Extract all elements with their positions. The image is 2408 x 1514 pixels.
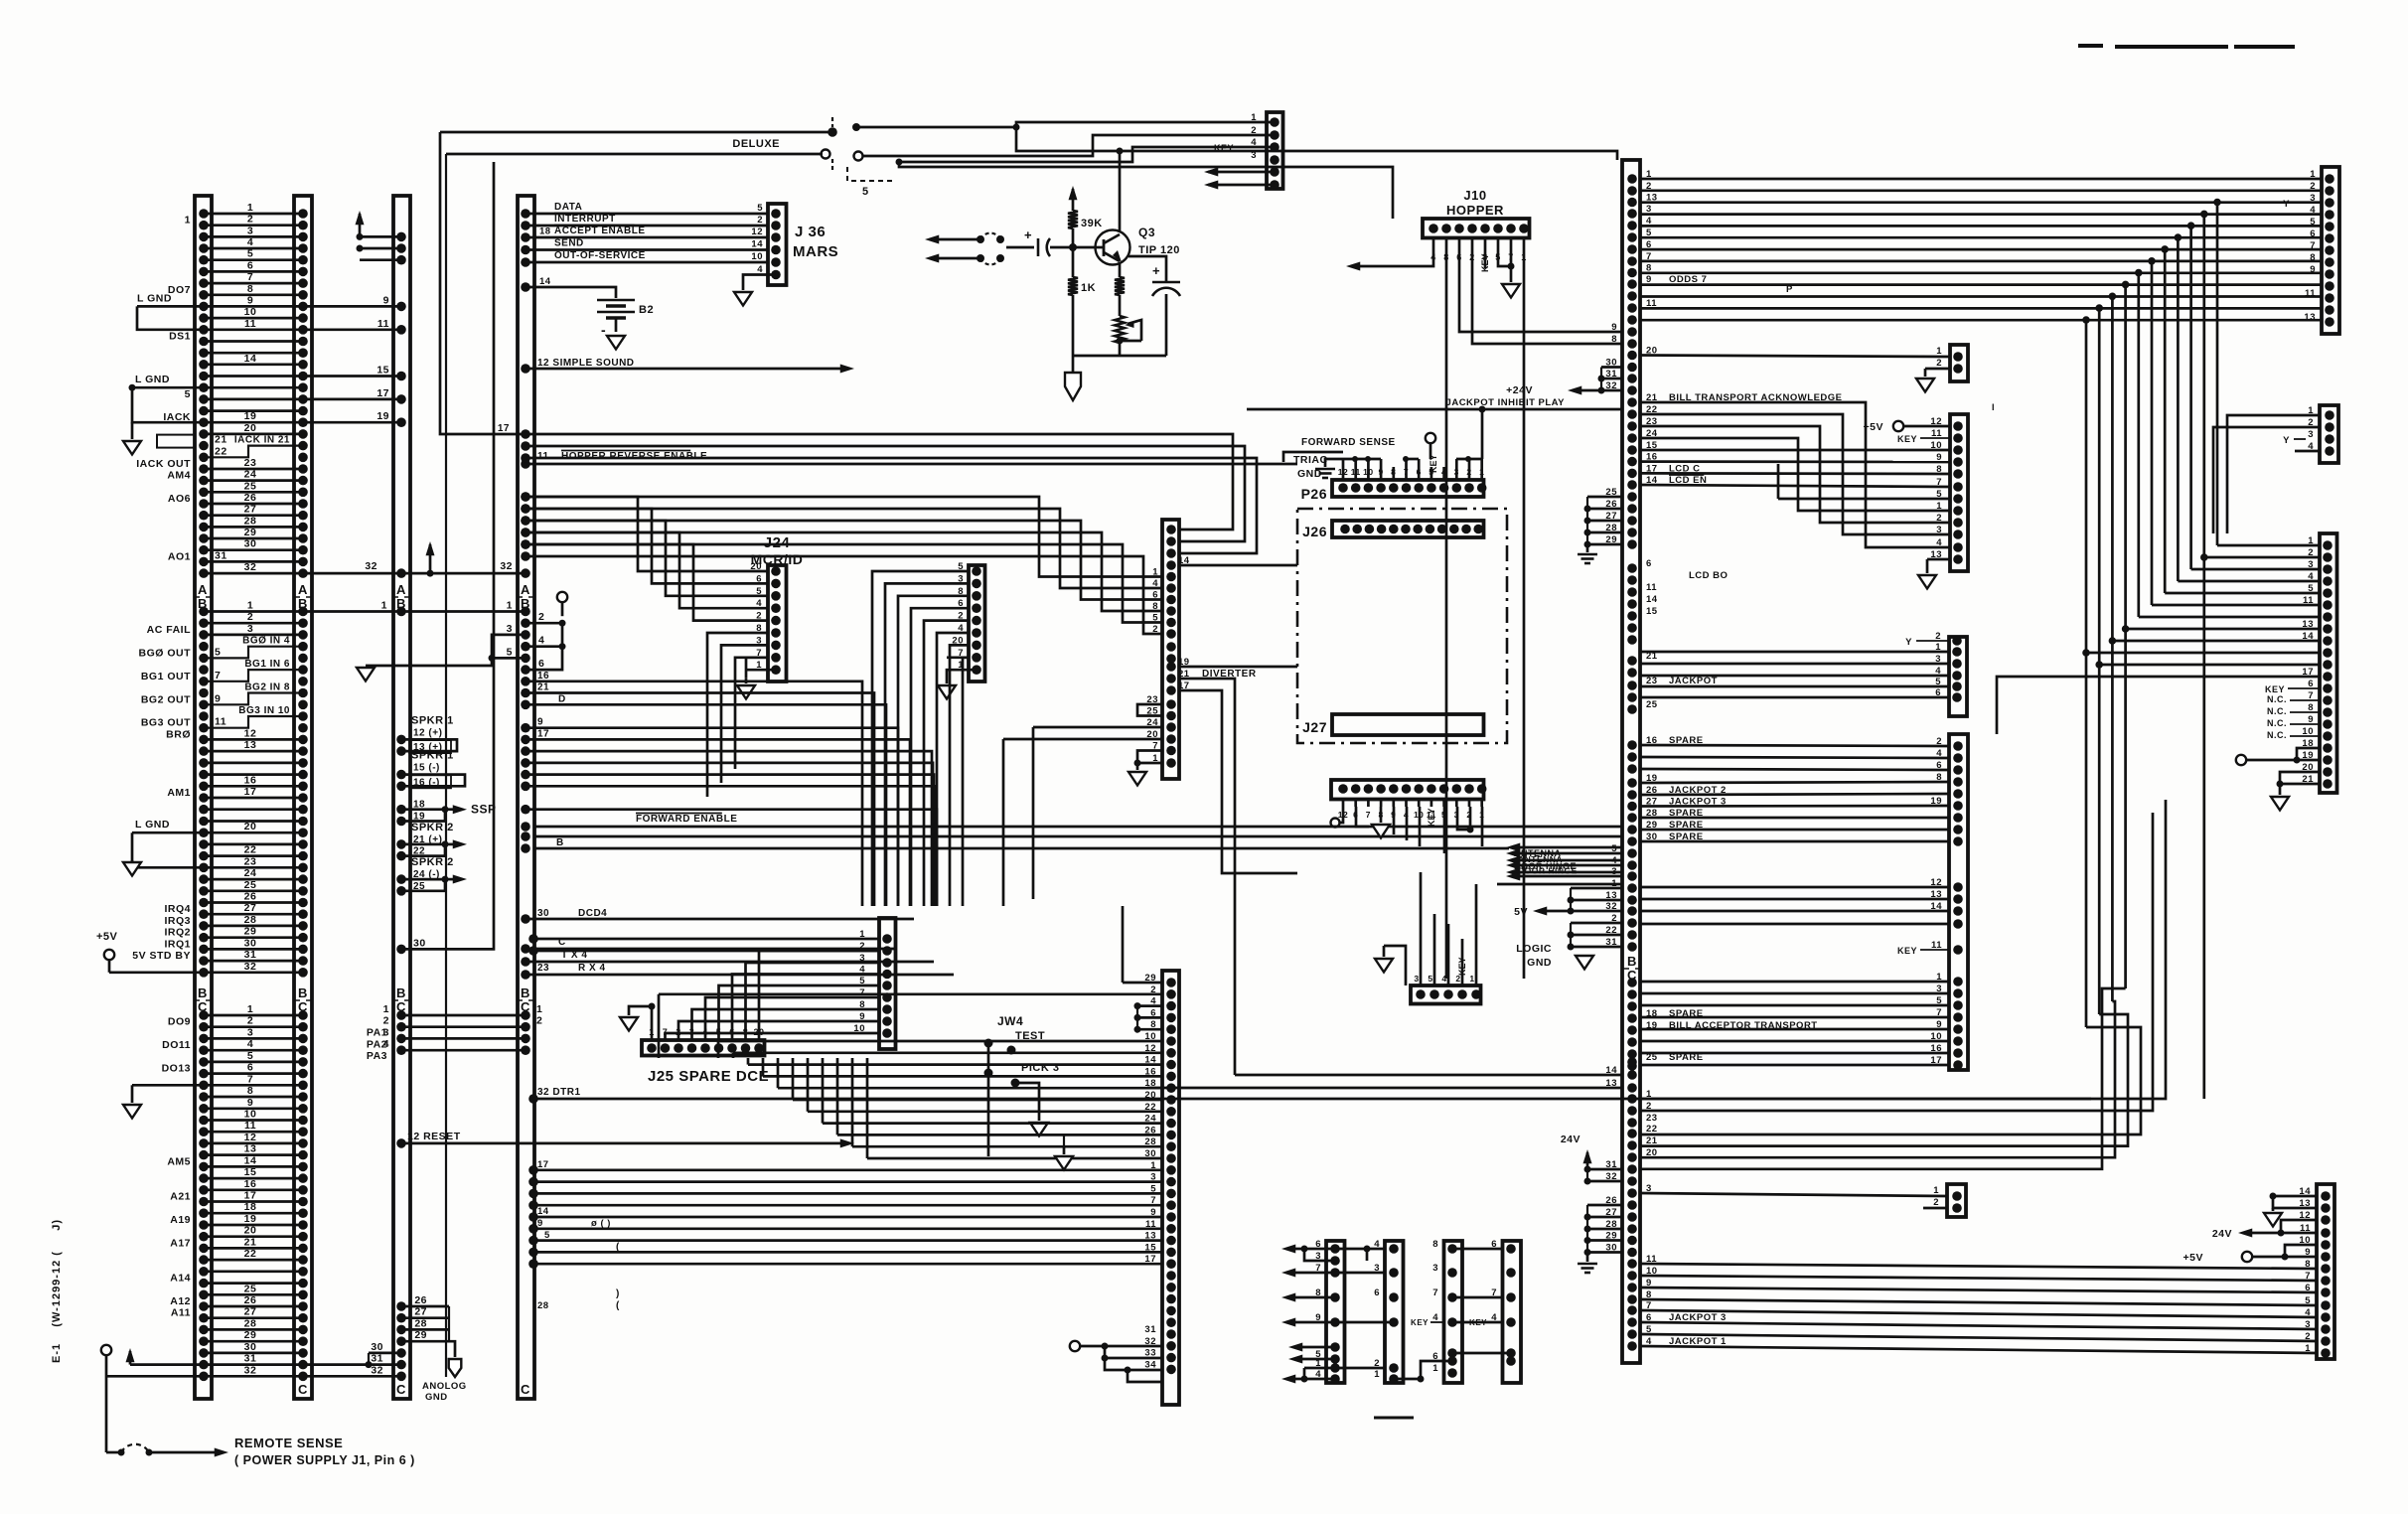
svg-text:4: 4 <box>247 1038 253 1050</box>
vertical bus lines right side <box>2085 320 2088 1027</box>
svg-text:C: C <box>396 1382 406 1397</box>
svg-text:14: 14 <box>2302 631 2314 642</box>
svg-text:2: 2 <box>247 611 253 623</box>
svg-text:FORWARD SENSE: FORWARD SENSE <box>1301 437 1396 448</box>
svg-text:DOOR HINGE: DOOR HINGE <box>1518 866 1578 876</box>
P11 pins 1 2 horizontals from J3 <box>533 938 879 941</box>
svg-text:DO11: DO11 <box>162 1039 191 1051</box>
svg-text:26: 26 <box>244 891 257 903</box>
svg-text:6: 6 <box>1646 558 1652 569</box>
J3 row 17 wire to top vertical <box>521 429 530 439</box>
svg-text:BG2 IN 8: BG2 IN 8 <box>244 682 290 693</box>
svg-text:FORWARD ENABLE: FORWARD ENABLE <box>636 814 737 825</box>
svg-text:8: 8 <box>1611 334 1617 345</box>
svg-text:2: 2 <box>536 1015 542 1027</box>
P7 pins 20 21 bracket with ground <box>2280 772 2320 784</box>
P10b row 29 wire <box>1123 982 1162 984</box>
svg-text:ø ( ): ø ( ) <box>591 1218 611 1229</box>
P0 arrows out left <box>1208 171 1275 174</box>
SPKR2 24/25 jumper on strip3 <box>396 874 406 884</box>
arrows out left from jumpers <box>930 238 980 241</box>
svg-text:14: 14 <box>244 353 257 365</box>
svg-text:MARS: MARS <box>793 243 838 260</box>
svg-text:OUT-OF-SERVICE: OUT-OF-SERVICE <box>554 250 646 261</box>
P27 connector box below module <box>1331 780 1484 800</box>
svg-text:AM1: AM1 <box>167 787 191 799</box>
svg-text:12: 12 <box>244 727 257 739</box>
svg-text:19: 19 <box>244 1213 257 1225</box>
svg-text:3: 3 <box>507 623 513 635</box>
svg-text:B2: B2 <box>639 304 654 316</box>
svg-text:KEY: KEY <box>1411 1318 1429 1327</box>
SSP jumper 18/19 on strip3 <box>396 805 406 815</box>
svg-text:A19: A19 <box>170 1214 191 1226</box>
svg-text:14: 14 <box>1646 594 1658 605</box>
svg-text:18: 18 <box>539 226 551 236</box>
svg-text:1: 1 <box>1432 1363 1438 1374</box>
JW4 wire down-left <box>987 1073 990 1156</box>
svg-text:8: 8 <box>1432 1239 1438 1250</box>
P9 pin2 ground <box>1925 368 1950 371</box>
svg-text:18: 18 <box>244 1201 257 1213</box>
svg-text:Q3: Q3 <box>1138 226 1155 239</box>
svg-text:2: 2 <box>1933 1197 1939 1208</box>
wires P1 to P4 lower group <box>1640 981 1949 984</box>
svg-text:C: C <box>298 1382 308 1397</box>
svg-text:14: 14 <box>537 1206 549 1217</box>
bottom rows 1-2 bend up right of P1 <box>1640 800 2166 1099</box>
ground symbol below B23 <box>131 860 134 867</box>
svg-text:DO9: DO9 <box>168 1016 191 1028</box>
svg-text:15: 15 <box>1646 606 1658 617</box>
svg-text:32: 32 <box>371 1364 383 1376</box>
left rows 14 13 from middle area <box>1235 1074 1622 1077</box>
BG staircase section B <box>204 647 303 659</box>
J3 TX4 RX4 rows <box>521 957 530 967</box>
svg-text:DATA: DATA <box>554 202 582 213</box>
svg-text:14: 14 <box>751 239 763 250</box>
svg-text:30: 30 <box>244 538 257 550</box>
P10b rows with V circle 31-34 <box>1070 1341 1080 1351</box>
svg-text:22: 22 <box>244 844 257 856</box>
svg-text:19: 19 <box>376 410 389 422</box>
connector P3 box <box>1949 637 1967 716</box>
riser wires from below to J24 pins 8 3 7 <box>707 633 768 797</box>
svg-text:5: 5 <box>1428 974 1432 984</box>
junction dots and verticals top staircase <box>2082 316 2090 324</box>
svg-text:11: 11 <box>244 1120 256 1132</box>
svg-text:10: 10 <box>244 306 257 318</box>
svg-text:C: C <box>521 1382 530 1397</box>
remote sense circle and wires bottom left <box>101 1345 111 1355</box>
svg-text:25: 25 <box>244 879 257 891</box>
P10a 7 1 jumper to ground <box>1137 751 1162 764</box>
J10 pin8 long stem down <box>1445 250 1448 979</box>
svg-text:IRQ3: IRQ3 <box>164 915 191 927</box>
svg-text:J27: J27 <box>1302 719 1327 735</box>
svg-text:12: 12 <box>244 1132 257 1143</box>
P28 pins numbers and stems up <box>1416 989 1426 999</box>
J10 pins and numbers <box>1429 224 1438 233</box>
P12 pin 2 stub <box>1923 1207 1947 1210</box>
svg-text:2: 2 <box>383 1015 389 1027</box>
svg-text:N.C.: N.C. <box>2267 718 2287 728</box>
svg-text:R X 4: R X 4 <box>578 963 606 974</box>
svg-text:15 (-): 15 (-) <box>413 763 440 774</box>
svg-text:PA3: PA3 <box>367 1050 387 1062</box>
Q3 emitter resistor <box>1119 262 1122 277</box>
svg-text:B: B <box>556 837 564 848</box>
svg-text:30: 30 <box>371 1341 383 1353</box>
svg-text:L GND: L GND <box>135 819 170 831</box>
J3 12 SIMPLE SOUND wire with arrow <box>521 364 530 374</box>
svg-text:29: 29 <box>244 527 257 538</box>
svg-text:5: 5 <box>215 646 221 658</box>
svg-text:4: 4 <box>859 965 865 976</box>
svg-text:J26: J26 <box>1302 524 1327 539</box>
svg-text:LCD BO: LCD BO <box>1689 570 1728 581</box>
P8 24V arrow pin 11 <box>2281 1232 2317 1235</box>
svg-text:4: 4 <box>247 236 253 248</box>
stray mark bottom middle <box>1374 1417 1414 1420</box>
J27 connector box <box>1332 714 1484 735</box>
J10 pin5 stem <box>1498 250 1511 266</box>
connector J10 HOPPER box <box>1423 219 1530 238</box>
svg-text:1: 1 <box>383 1003 389 1015</box>
up arrow to C31 row <box>129 1351 132 1365</box>
strip3 B30 wire right <box>396 945 406 955</box>
staircase P1 rows 21-24 down to P2 <box>1640 402 1950 547</box>
connector P10a diverter box <box>1162 520 1179 779</box>
svg-text:27: 27 <box>244 504 257 516</box>
svg-text:SPKR 1: SPKR 1 <box>411 714 454 726</box>
svg-text:B: B <box>298 985 308 1000</box>
P8 ground jumper pins 14 13 <box>2273 1195 2317 1198</box>
svg-text:28: 28 <box>537 1300 549 1311</box>
svg-text:21: 21 <box>537 682 549 693</box>
svg-text:TRIAC: TRIAC <box>1293 454 1328 466</box>
svg-text:7: 7 <box>1432 1287 1438 1298</box>
svg-text:20: 20 <box>244 1225 257 1237</box>
svg-text:Y: Y <box>2283 199 2290 210</box>
svg-text:6: 6 <box>247 259 253 271</box>
links S1-S2 <box>1335 1248 1385 1251</box>
P28 ground arrow left <box>1383 946 1386 957</box>
J3 DCD4 row <box>521 914 530 924</box>
svg-text:29: 29 <box>244 926 257 938</box>
svg-text:1K: 1K <box>1081 282 1096 294</box>
switch output wires to connector P0 <box>856 122 1275 127</box>
J3 section B misc pins <box>521 822 530 832</box>
J25 pin stems staircase to P11 <box>666 1033 880 1040</box>
J10 KEY pin3 <box>1484 250 1487 268</box>
P10b staircase rows 2-30 from left risers <box>659 992 1162 995</box>
svg-text:31: 31 <box>244 949 257 961</box>
svg-text:I: I <box>1992 402 1995 412</box>
svg-text:+: + <box>1024 227 1032 242</box>
svg-text:16: 16 <box>537 671 549 681</box>
ground arrow near P10b top <box>1063 1147 1066 1154</box>
P2 pin 13 ground <box>1927 558 1950 561</box>
svg-text:26: 26 <box>244 1294 257 1306</box>
P10a left input rows from J3 bundle <box>526 497 1162 577</box>
dashed jumper contacts left of cap <box>977 235 984 243</box>
J24 pins and numbers <box>771 566 781 576</box>
svg-text:GND: GND <box>425 1392 448 1403</box>
svg-text:A: A <box>521 582 530 597</box>
svg-text:DELUXE: DELUXE <box>732 138 780 150</box>
svg-text:1: 1 <box>859 929 865 940</box>
pot with feedback arrow <box>1115 316 1125 343</box>
svg-text:11: 11 <box>1646 582 1657 593</box>
svg-text:22: 22 <box>1646 1124 1658 1135</box>
J26 pin dots <box>1340 525 1350 534</box>
svg-text:3: 3 <box>247 225 253 236</box>
P10a rows 19 21 17 wires right then down <box>1179 666 1297 669</box>
svg-text:HOPPER REVERSE ENABLE: HOPPER REVERSE ENABLE <box>561 451 707 462</box>
svg-text:11: 11 <box>377 318 389 330</box>
P26 pin1 riser to top <box>1481 409 1484 459</box>
svg-text:1: 1 <box>247 202 253 214</box>
connector J36 MARS box <box>768 204 787 285</box>
SPKR1 12/13 bracket on strip3 <box>396 735 406 745</box>
S2 pins and numbers <box>1389 1244 1399 1254</box>
S1 bottom bracket 1-4 <box>1301 1376 1308 1383</box>
wires P1 to P3 <box>1640 651 1949 654</box>
svg-text:J 36: J 36 <box>795 224 826 240</box>
P7 pin 17 wire from below <box>1997 677 2320 734</box>
long wire from switch area to right bus <box>1016 127 1617 160</box>
P10b pins <box>1166 978 1176 987</box>
wires P1 to P4 middle group <box>1640 886 1949 889</box>
svg-text:A: A <box>396 582 406 597</box>
svg-text:2: 2 <box>538 611 544 623</box>
S3 pins and numbers <box>1447 1244 1457 1254</box>
svg-text:1: 1 <box>507 600 513 612</box>
J3 11 HOPPER REVERSE ENABLE long wire <box>521 459 530 469</box>
svg-text:23: 23 <box>1646 1113 1658 1124</box>
P10a 23 25 jumper bracket <box>1137 704 1162 716</box>
ground below battery B2 <box>607 336 625 350</box>
arrow-up jumper strip3 pins A3-A5 <box>359 214 362 236</box>
svg-text:KEY: KEY <box>1214 143 1234 153</box>
svg-text:12: 12 <box>751 227 763 237</box>
strip3 PA1 PA2 PA3 rows C1-C4 wires to strip4 <box>396 1010 406 1020</box>
top bundle wires P1 to P5 with junction dots <box>1640 178 2322 181</box>
svg-text:30: 30 <box>537 908 549 919</box>
P11 pins and numbers <box>882 934 892 944</box>
svg-text:(: ( <box>616 1300 620 1311</box>
J26 connector box <box>1332 521 1484 537</box>
svg-text:DCD4: DCD4 <box>578 908 607 919</box>
strip4 B2 B4 B6 jumper with open circle <box>521 618 530 628</box>
svg-text:N.C.: N.C. <box>2267 694 2287 704</box>
svg-text:8: 8 <box>859 999 865 1010</box>
SPKR2 21/22 jumper on strip3 <box>396 839 406 849</box>
svg-text:16: 16 <box>244 774 257 786</box>
P2 +5V circle pin 12 <box>1893 421 1903 431</box>
S4 pins and numbers <box>1506 1244 1516 1254</box>
svg-text:9: 9 <box>537 1218 543 1229</box>
svg-text:9: 9 <box>1611 322 1617 333</box>
svg-text:7: 7 <box>215 670 221 681</box>
J10 pin2 stem to P1 <box>1472 250 1622 344</box>
svg-text:E-1 (W-1299-12 ( J): E-1 (W-1299-12 ( J) <box>51 1219 63 1363</box>
S1 pins and numbers <box>1330 1244 1340 1254</box>
svg-text:HOPPER: HOPPER <box>1446 203 1504 218</box>
svg-text:B: B <box>198 596 208 611</box>
svg-text:N.C.: N.C. <box>2267 730 2287 740</box>
svg-text:BG3 IN 10: BG3 IN 10 <box>238 705 290 716</box>
analog ground symbol <box>449 1359 462 1377</box>
svg-text:1: 1 <box>1251 112 1257 123</box>
svg-text:23: 23 <box>244 457 257 469</box>
svg-text:31: 31 <box>215 549 227 561</box>
svg-text:10: 10 <box>244 1109 257 1121</box>
svg-text:23: 23 <box>244 855 257 867</box>
svg-text:6: 6 <box>1374 1287 1380 1298</box>
svg-text:32: 32 <box>365 560 377 572</box>
svg-text:9: 9 <box>247 1097 253 1109</box>
L GND wire to A9 <box>137 305 204 308</box>
svg-text:L GND: L GND <box>137 292 172 304</box>
svg-text:8: 8 <box>247 1085 253 1097</box>
svg-text:AM5: AM5 <box>167 1155 191 1167</box>
svg-text:5: 5 <box>185 388 191 400</box>
P7 pin 19 V circle <box>2236 755 2246 765</box>
J10 pin4 arrow out <box>1351 250 1433 266</box>
svg-text:29: 29 <box>414 1329 427 1341</box>
P7 pin 18 bracket <box>2297 748 2320 760</box>
svg-text:19: 19 <box>244 410 257 422</box>
svg-text:9: 9 <box>537 717 543 728</box>
P27 pin 8 ground stem <box>1380 807 1383 823</box>
svg-text:ANOLOG: ANOLOG <box>422 1381 467 1392</box>
IACK IN staircase A21-A22 <box>204 446 303 458</box>
svg-text:JW4: JW4 <box>997 1014 1023 1028</box>
strip4 B3 B5 jumper with ground <box>521 630 530 640</box>
wires into P6 <box>2227 415 2320 533</box>
transistor Q3 TIP120 <box>1096 230 1130 265</box>
svg-text:25: 25 <box>244 1283 257 1294</box>
J10 pin7 stem to ground <box>1510 250 1513 282</box>
svg-text:15: 15 <box>244 1166 257 1178</box>
J3 row C <box>521 944 530 954</box>
svg-text:B: B <box>298 596 308 611</box>
svg-text:31: 31 <box>371 1353 383 1365</box>
connector S3 box <box>1444 1241 1463 1383</box>
links S3-S4 <box>1452 1248 1503 1251</box>
svg-text:): ) <box>616 1288 620 1299</box>
svg-text:26: 26 <box>414 1294 427 1306</box>
svg-text:20: 20 <box>244 821 257 833</box>
svg-text:A: A <box>198 582 208 597</box>
J36 pin 4 ground <box>771 270 781 280</box>
svg-text:28: 28 <box>414 1317 427 1329</box>
svg-text:1: 1 <box>247 600 253 612</box>
svg-text:9: 9 <box>859 1011 865 1022</box>
svg-text:A21: A21 <box>170 1191 191 1203</box>
svg-text:12 SIMPLE SOUND: 12 SIMPLE SOUND <box>537 358 635 369</box>
ground symbol below A19 <box>131 422 134 439</box>
svg-text:1: 1 <box>247 1003 253 1015</box>
svg-text:2: 2 <box>2308 547 2314 558</box>
vertical bus k9 extension down <box>2202 557 2205 1099</box>
svg-text:14: 14 <box>244 1154 257 1166</box>
svg-text:BGØ IN 4: BGØ IN 4 <box>242 636 290 647</box>
wires J1 to J2 section A rows 9 11 15 17 19 <box>303 305 401 308</box>
svg-text:IRQ2: IRQ2 <box>164 927 191 939</box>
svg-text:A14: A14 <box>170 1273 191 1285</box>
svg-text:21: 21 <box>215 434 227 446</box>
svg-text:A17: A17 <box>170 1237 191 1249</box>
svg-text:( POWER SUPPLY J1, Pin 6 ): ( POWER SUPPLY J1, Pin 6 ) <box>234 1453 415 1467</box>
P10a pins <box>1166 525 1176 534</box>
svg-text:28: 28 <box>244 914 257 926</box>
svg-text:DO13: DO13 <box>162 1063 191 1075</box>
P10b bracket rows 4 6 8 <box>1136 1006 1138 1030</box>
svg-text:A: A <box>298 582 308 597</box>
connector P10b box <box>1162 971 1179 1405</box>
svg-text:13: 13 <box>2302 619 2314 630</box>
svg-text:ACCEPT ENABLE: ACCEPT ENABLE <box>554 226 646 236</box>
svg-text:17: 17 <box>244 1190 257 1202</box>
svg-text:23: 23 <box>537 963 549 974</box>
svg-text:3: 3 <box>1432 1263 1438 1274</box>
svg-text:2: 2 <box>1936 358 1942 369</box>
svg-text:4: 4 <box>2308 571 2314 582</box>
svg-text:9: 9 <box>383 294 389 306</box>
svg-text:5V STD BY: 5V STD BY <box>132 950 191 962</box>
boxed label row 21 <box>157 435 195 448</box>
svg-text:32: 32 <box>244 1364 257 1376</box>
resistor 39K <box>1072 189 1075 211</box>
svg-text:3: 3 <box>383 1026 389 1038</box>
svg-text:3: 3 <box>2308 559 2314 570</box>
dash-dot module outline J26 J27 <box>1297 509 1507 743</box>
connector J24B box (second MCR) <box>969 565 985 681</box>
connector P4 box <box>1949 734 1968 1070</box>
svg-text:28: 28 <box>244 515 257 527</box>
svg-text:BG2 OUT: BG2 OUT <box>141 693 191 705</box>
svg-text:17: 17 <box>498 423 510 434</box>
svg-text:KEY: KEY <box>1427 808 1436 827</box>
svg-text:5: 5 <box>757 203 763 214</box>
svg-text:BG3 OUT: BG3 OUT <box>141 717 191 729</box>
svg-text:B: B <box>396 985 406 1000</box>
svg-text:D: D <box>558 693 566 704</box>
P26 connector box <box>1332 480 1484 497</box>
connector P7 box <box>2320 533 2337 793</box>
svg-text:B: B <box>198 985 208 1000</box>
connector J1 column A/B/C left strip <box>195 196 212 1399</box>
svg-text:LOGIC: LOGIC <box>1516 943 1552 955</box>
svg-text:BGØ OUT: BGØ OUT <box>139 647 192 659</box>
wire P1 row 3 to P12 <box>1640 1193 1947 1196</box>
open circle above P26 pin 5 <box>1426 433 1435 443</box>
connector P6 box <box>2320 405 2338 463</box>
svg-text:AO6: AO6 <box>168 493 191 505</box>
svg-text:Y: Y <box>1905 637 1912 648</box>
P10a top rows wires to J3 rows 437 449 461 <box>521 441 530 451</box>
svg-text:L GND: L GND <box>135 374 170 385</box>
strip3 C26-C29 bracket to analog ground <box>396 1301 406 1311</box>
svg-text:9: 9 <box>247 294 253 306</box>
svg-text:5: 5 <box>544 1230 550 1241</box>
svg-text:1: 1 <box>536 1003 542 1015</box>
svg-text:BG1 IN 6: BG1 IN 6 <box>244 659 290 670</box>
svg-text:17: 17 <box>244 786 257 798</box>
